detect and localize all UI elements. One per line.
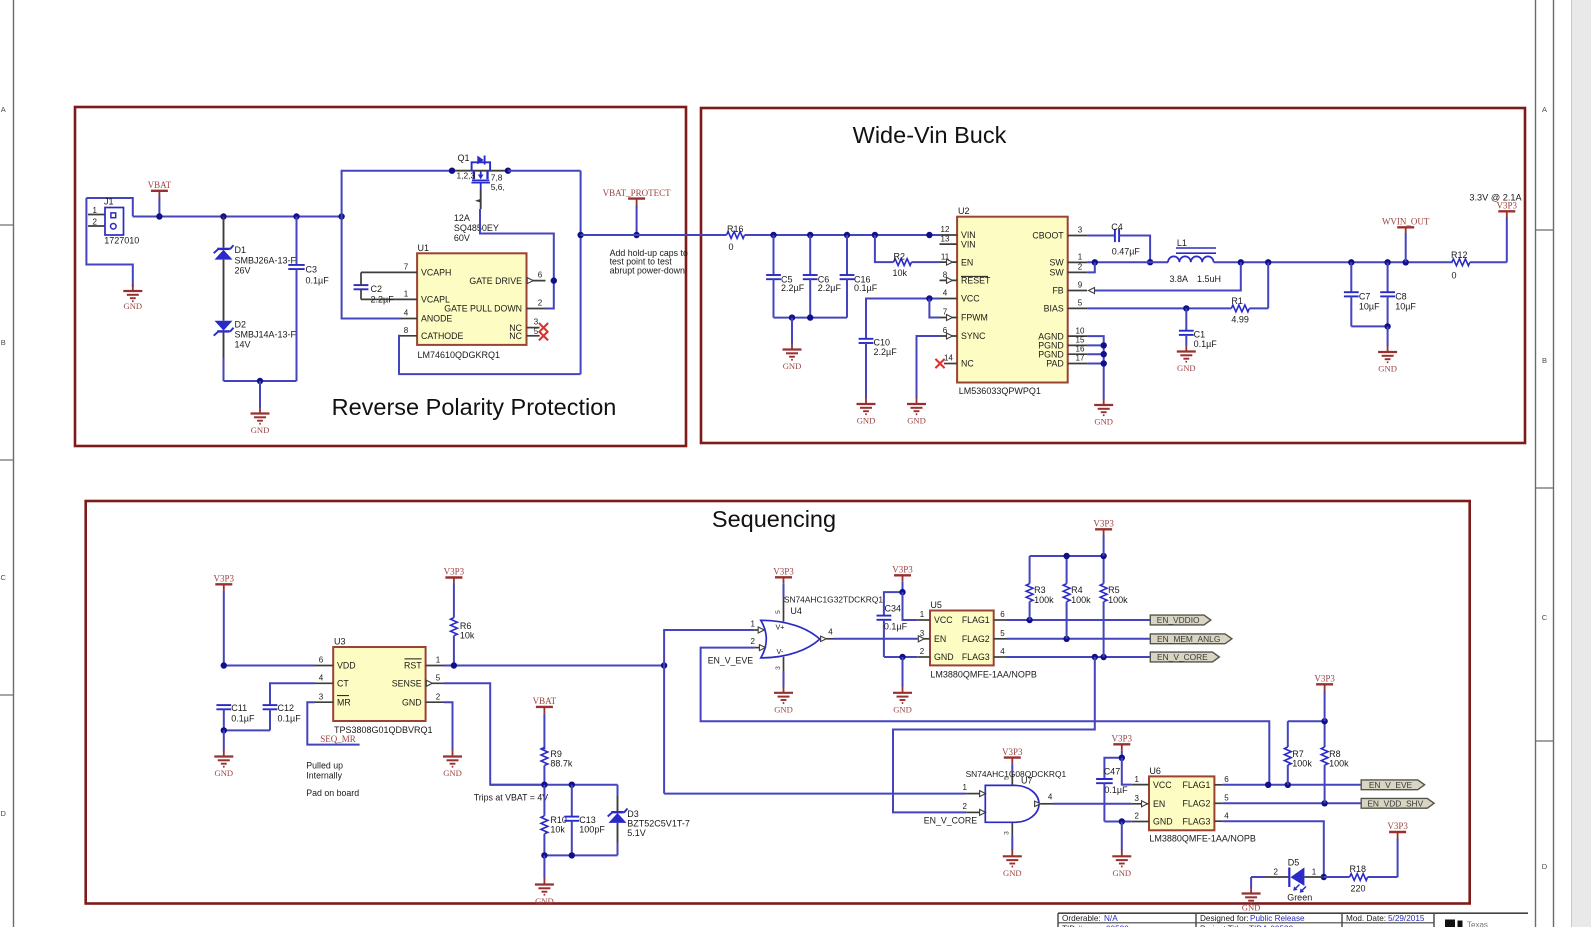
svg-text:WVIN_OUT: WVIN_OUT xyxy=(1382,217,1430,227)
svg-text:1: 1 xyxy=(436,656,441,665)
svg-text:100k: 100k xyxy=(1108,595,1128,605)
svg-text:7,8: 7,8 xyxy=(491,172,503,182)
svg-text:Reverse Polarity Protection: Reverse Polarity Protection xyxy=(332,394,617,420)
svg-text:100k: 100k xyxy=(1329,758,1349,768)
wire FB sense xyxy=(1095,262,1241,290)
svg-text:R9: R9 xyxy=(550,749,562,759)
no-connect X pin14 U2 xyxy=(935,359,944,368)
svg-text:EN_V_CORE: EN_V_CORE xyxy=(924,815,977,825)
port EN_MEM_ANLG xyxy=(1150,634,1232,644)
svg-text:0: 0 xyxy=(1452,271,1457,281)
svg-text:GND: GND xyxy=(1378,364,1397,374)
capacitor C5 2.2uF xyxy=(766,235,805,318)
svg-text:EN_VDD_SHV: EN_VDD_SHV xyxy=(1367,798,1423,808)
svg-text:VBAT: VBAT xyxy=(148,180,172,190)
port EN_VDDIO xyxy=(1150,615,1211,625)
capacitor C11 0.1uF xyxy=(216,703,255,730)
ground under U4 xyxy=(774,671,793,714)
svg-text:0.1µF: 0.1µF xyxy=(231,713,255,723)
svg-text:C3: C3 xyxy=(306,265,318,275)
wire FPWM tie to VCC xyxy=(926,295,939,317)
ground under J1 xyxy=(123,285,142,312)
ground under U5 xyxy=(884,654,917,715)
svg-text:D2: D2 xyxy=(235,320,247,330)
wire U3 RST to gates xyxy=(444,662,667,668)
svg-text:A: A xyxy=(1,105,6,114)
svg-text:Orderable:: Orderable: xyxy=(1062,914,1101,923)
ground under R10 xyxy=(535,878,554,906)
svg-text:VCC: VCC xyxy=(961,294,980,304)
port EN_V_EVE xyxy=(1361,780,1424,790)
svg-text:1.5uH: 1.5uH xyxy=(1197,274,1221,284)
svg-text:8: 8 xyxy=(404,326,409,335)
svg-text:2: 2 xyxy=(751,637,756,646)
transistor Q1 SQ4850EY xyxy=(342,153,512,243)
svg-text:4.99: 4.99 xyxy=(1231,314,1249,324)
svg-text:U4: U4 xyxy=(790,606,802,616)
svg-text:2.2µF: 2.2µF xyxy=(371,294,395,304)
svg-text:GND: GND xyxy=(535,896,554,906)
resistor R5 100k xyxy=(1100,556,1128,657)
ground under D2/C3 xyxy=(251,407,270,435)
svg-text:GND: GND xyxy=(857,416,876,426)
svg-text:2.2µF: 2.2µF xyxy=(874,347,898,357)
svg-text:0.1µF: 0.1µF xyxy=(884,622,908,632)
svg-text:FLAG1: FLAG1 xyxy=(1183,780,1211,790)
resistor R4 100k xyxy=(1063,556,1091,639)
ground under C10 xyxy=(857,398,876,426)
diode D1 SMBJ26A-13-F xyxy=(214,217,297,321)
wire Q1 gate to U1 xyxy=(480,209,557,309)
svg-text:VCAPH: VCAPH xyxy=(421,268,451,278)
svg-text:GND: GND xyxy=(1003,868,1022,878)
svg-text:1: 1 xyxy=(1312,867,1317,876)
wire R9/R10/C13/D3 top rail xyxy=(490,782,617,788)
svg-text:Pad on board: Pad on board xyxy=(306,788,359,798)
svg-text:D3: D3 xyxy=(627,809,639,819)
svg-text:15: 15 xyxy=(1076,336,1085,345)
svg-text:V3P3: V3P3 xyxy=(214,574,235,584)
svg-text:12: 12 xyxy=(941,225,950,234)
svg-text:V3P3: V3P3 xyxy=(1093,519,1114,529)
svg-text:SMBJ14A-13-F: SMBJ14A-13-F xyxy=(235,330,297,340)
wire R7/R8 top rail xyxy=(1288,718,1328,724)
diode D2 SMBJ14A-13-F xyxy=(214,320,297,382)
svg-text:MR: MR xyxy=(337,697,351,707)
svg-text:VBAT_PROTECT: VBAT_PROTECT xyxy=(603,188,672,198)
note hold-up caps xyxy=(610,248,688,276)
svg-text:C34: C34 xyxy=(885,604,902,614)
svg-text:2.2µF: 2.2µF xyxy=(818,283,842,293)
svg-text:0.1µF: 0.1µF xyxy=(1194,339,1218,349)
svg-text:4: 4 xyxy=(828,627,833,636)
ground under C11 xyxy=(214,750,233,778)
svg-text:1: 1 xyxy=(404,289,409,298)
power symbol V3P3 output xyxy=(1497,201,1518,263)
wire U4 output to U5 EN xyxy=(834,638,917,640)
svg-text:C11: C11 xyxy=(231,703,247,713)
svg-text:C8: C8 xyxy=(1395,292,1407,302)
ground under U6 xyxy=(1104,818,1131,878)
svg-text:26V: 26V xyxy=(235,266,251,276)
svg-text:VCC: VCC xyxy=(934,615,953,625)
connector J1 1727010 xyxy=(86,197,139,287)
svg-text:4: 4 xyxy=(404,309,409,318)
svg-text:C: C xyxy=(1542,613,1548,622)
svg-text:B: B xyxy=(1,338,6,347)
wire R10/C13/D3 bottom rail xyxy=(541,852,617,878)
svg-text:220: 220 xyxy=(1351,884,1366,894)
svg-text:14V: 14V xyxy=(235,340,251,350)
resistor R8 100k xyxy=(1321,721,1349,803)
op-amp U7 SN74AHC1G08QDCKRQ1 AND gate xyxy=(963,769,1067,836)
svg-text:GND: GND xyxy=(893,704,912,714)
svg-text:4: 4 xyxy=(1048,792,1053,801)
op-amp U6 LM3880QMFE-1AA/NOPB xyxy=(1132,766,1256,844)
svg-text:0: 0 xyxy=(729,242,734,252)
diode D3 BZT52C5V1T-7 xyxy=(608,785,690,856)
ground under C1 xyxy=(1177,345,1196,373)
wire EN_V_EVE feedback xyxy=(701,648,1270,785)
resistor R12 0 xyxy=(1451,250,1507,280)
wire RST net to U7 input1 xyxy=(664,793,966,795)
port EN_V_CORE xyxy=(1150,652,1219,662)
capacitor C10 2.2uF xyxy=(859,299,940,399)
wire Q1 source to VBAT_PROTECT node xyxy=(508,171,581,374)
wire U1 anode to VBAT rail xyxy=(342,217,401,319)
svg-text:2: 2 xyxy=(538,298,543,307)
svg-text:10k: 10k xyxy=(460,631,475,641)
ground under C7/C8 xyxy=(1378,346,1397,374)
svg-text:2: 2 xyxy=(963,802,968,811)
svg-text:V3P3: V3P3 xyxy=(1002,747,1023,757)
svg-text:FLAG2: FLAG2 xyxy=(1183,799,1211,809)
svg-text:Texas: Texas xyxy=(1467,921,1488,928)
svg-text:17: 17 xyxy=(1076,354,1085,363)
wire C11/C12 bottom rail xyxy=(221,727,270,750)
svg-text:3: 3 xyxy=(1078,226,1083,235)
svg-text:6: 6 xyxy=(1224,775,1229,784)
op-amp U5 LM3880QMFE-1AA/NOPB xyxy=(917,600,1037,680)
power symbol V3P3 at U4 xyxy=(773,567,794,598)
svg-text:SYNC: SYNC xyxy=(961,331,986,341)
capacitor C1 0.1uF xyxy=(1179,308,1217,349)
svg-text:Green: Green xyxy=(1287,893,1312,903)
svg-text:V3P3: V3P3 xyxy=(1387,821,1408,831)
ground under U3 xyxy=(443,750,462,778)
svg-text:3.3V @ 2.1A: 3.3V @ 2.1A xyxy=(1469,193,1522,203)
svg-text:D1: D1 xyxy=(235,245,247,255)
svg-text:RESET: RESET xyxy=(961,276,991,286)
sheet zone border left xyxy=(0,0,14,927)
svg-text:0.1µF: 0.1µF xyxy=(306,276,330,286)
svg-text:CT: CT xyxy=(337,679,349,689)
svg-text:5.1V: 5.1V xyxy=(627,828,646,838)
svg-text:GND: GND xyxy=(1094,417,1113,427)
wire FLAG3 to D5 xyxy=(1223,821,1327,880)
svg-text:5: 5 xyxy=(1000,629,1005,638)
svg-text:2: 2 xyxy=(1134,812,1139,821)
wire FLAG2 to EN_MEM_ANLG xyxy=(1007,636,1151,642)
svg-text:10k: 10k xyxy=(550,825,565,835)
block frame: Reverse Polarity Protection xyxy=(75,107,686,446)
svg-text:5: 5 xyxy=(534,327,539,336)
resistor R3 100k xyxy=(1026,556,1054,620)
svg-text:100k: 100k xyxy=(1034,595,1054,605)
svg-text:CATHODE: CATHODE xyxy=(421,331,463,341)
svg-text:NC: NC xyxy=(509,331,522,341)
svg-text:RST: RST xyxy=(404,661,422,671)
svg-text:C10: C10 xyxy=(874,337,891,347)
TI logo xyxy=(1445,920,1488,930)
capacitor C7 10uF xyxy=(1344,262,1380,326)
svg-text:2: 2 xyxy=(436,692,441,701)
svg-text:GND: GND xyxy=(1177,363,1196,373)
svg-text:SMBJ26A-13-F: SMBJ26A-13-F xyxy=(235,256,297,266)
svg-text:VCC: VCC xyxy=(1153,780,1172,790)
capacitor C3 0.1uF xyxy=(288,217,329,382)
svg-text:PAD: PAD xyxy=(1046,359,1063,369)
svg-text:SEQ_MR: SEQ_MR xyxy=(320,734,356,744)
svg-text:R1: R1 xyxy=(1231,296,1243,306)
svg-text:2: 2 xyxy=(920,647,925,656)
svg-text:3: 3 xyxy=(534,318,539,327)
note 3.3V at 2.1A xyxy=(1469,193,1522,203)
svg-text:A: A xyxy=(1542,105,1547,114)
svg-text:5: 5 xyxy=(1224,794,1229,803)
wire VBAT_PROTECT to buck xyxy=(581,234,727,236)
svg-text:100k: 100k xyxy=(1071,595,1091,605)
svg-text:SN74AHC1G08QDCKRQ1: SN74AHC1G08QDCKRQ1 xyxy=(966,769,1067,779)
note trips at VBAT xyxy=(474,793,549,803)
svg-text:CBOOT: CBOOT xyxy=(1032,231,1064,241)
power symbol V3P3 at R18 xyxy=(1387,821,1408,877)
svg-text:6: 6 xyxy=(319,656,324,665)
svg-text:10: 10 xyxy=(1076,326,1085,335)
wire EN_V_CORE to U7 xyxy=(893,657,1095,812)
svg-text:D: D xyxy=(0,809,6,818)
svg-text:U7: U7 xyxy=(1021,775,1033,785)
svg-text:EN_V_CORE: EN_V_CORE xyxy=(1157,652,1208,662)
svg-text:V3P3: V3P3 xyxy=(1314,674,1335,684)
svg-text:C47: C47 xyxy=(1104,767,1121,777)
power symbol V3P3 at R8 xyxy=(1314,674,1335,722)
svg-text:SENSE: SENSE xyxy=(392,679,422,689)
svg-text:Public Release: Public Release xyxy=(1250,914,1305,923)
node VBAT junctions xyxy=(156,213,345,219)
wire R3/R4/R5 top rail xyxy=(1030,553,1107,559)
svg-text:EN: EN xyxy=(961,257,973,267)
svg-text:60V: 60V xyxy=(454,233,470,243)
power symbol VBAT_PROTECT xyxy=(603,188,672,238)
wire C7/C8 bottom rail xyxy=(1351,323,1391,346)
resistor R6 10k xyxy=(444,567,475,666)
power symbol V3P3 at U3 xyxy=(214,574,235,666)
svg-text:2: 2 xyxy=(1078,263,1083,272)
svg-text:2.2µF: 2.2µF xyxy=(781,283,805,293)
wire SYNC to ground xyxy=(917,336,940,398)
svg-text:Designed for:: Designed for: xyxy=(1200,914,1249,923)
resistor R10 10k xyxy=(541,785,567,856)
svg-text:EN: EN xyxy=(1153,799,1165,809)
svg-text:L1: L1 xyxy=(1177,238,1187,248)
svg-text:V+: V+ xyxy=(776,623,785,632)
svg-text:0.1µF: 0.1µF xyxy=(278,713,302,723)
svg-text:abrupt power-down: abrupt power-down xyxy=(610,266,685,276)
wire D1-D2/C3 bottom rail xyxy=(224,378,297,408)
svg-text:GND: GND xyxy=(214,768,233,778)
wire FLAG1 to EN_V_EVE xyxy=(1223,782,1362,788)
svg-text:J1: J1 xyxy=(104,197,114,207)
svg-text:EN_VDDIO: EN_VDDIO xyxy=(1157,615,1200,625)
svg-text:U2: U2 xyxy=(958,206,970,216)
sheet margin grey strip xyxy=(1572,0,1591,927)
ground under U2 xyxy=(1094,399,1113,427)
svg-text:1: 1 xyxy=(963,783,968,792)
wire U3 VDD xyxy=(221,662,315,668)
svg-text:GND: GND xyxy=(1242,903,1261,913)
no-connect X pin3 U1 xyxy=(539,323,548,332)
svg-text:4: 4 xyxy=(943,289,948,298)
svg-text:GND: GND xyxy=(1112,868,1131,878)
svg-text:FB: FB xyxy=(1052,286,1063,296)
svg-text:6: 6 xyxy=(538,270,543,279)
svg-text:1: 1 xyxy=(920,610,925,619)
svg-text:7: 7 xyxy=(404,262,409,271)
svg-text:10µF: 10µF xyxy=(1395,301,1416,311)
svg-text:V-: V- xyxy=(777,647,784,656)
svg-text:16: 16 xyxy=(1076,344,1085,353)
wire buck VIN rail xyxy=(745,232,940,238)
svg-text:GND: GND xyxy=(783,361,802,371)
svg-text:EN_V_EVE: EN_V_EVE xyxy=(708,655,754,665)
svg-text:LM3880QMFE-1AA/NOPB: LM3880QMFE-1AA/NOPB xyxy=(930,670,1037,680)
wire input caps bottom rail xyxy=(774,314,848,343)
ground under D5 xyxy=(1242,887,1261,913)
power symbol V3P3 at U5 xyxy=(892,565,917,621)
svg-text:1: 1 xyxy=(1078,253,1083,262)
svg-text:R16: R16 xyxy=(727,224,744,234)
svg-text:V3P3: V3P3 xyxy=(773,567,794,577)
svg-text:C1: C1 xyxy=(1194,330,1206,340)
svg-text:Sequencing: Sequencing xyxy=(712,506,836,532)
svg-text:R18: R18 xyxy=(1350,864,1367,874)
svg-text:3: 3 xyxy=(319,692,324,701)
svg-text:R6: R6 xyxy=(460,621,472,631)
svg-text:SN74AHC1G32TDCKRQ1: SN74AHC1G32TDCKRQ1 xyxy=(784,594,883,604)
svg-text:R5: R5 xyxy=(1108,585,1120,595)
svg-text:U3: U3 xyxy=(334,637,346,647)
wire FLAG1 to EN_VDDIO xyxy=(1007,617,1151,623)
resistor R2 10k xyxy=(875,235,940,278)
svg-text:EN_V_EVE: EN_V_EVE xyxy=(1369,780,1413,790)
svg-text:GND: GND xyxy=(123,301,142,311)
power symbol VBAT at R9 xyxy=(533,696,557,749)
svg-text:R2: R2 xyxy=(894,251,906,261)
resistor R7 100k xyxy=(1284,721,1312,785)
svg-text:100k: 100k xyxy=(1292,758,1312,768)
ground under SYNC xyxy=(907,398,926,426)
svg-text:0.1µF: 0.1µF xyxy=(1104,785,1128,795)
svg-text:Trips at VBAT = 4V: Trips at VBAT = 4V xyxy=(474,793,549,803)
wire U1 cathode to VBAT_PROTECT xyxy=(399,336,581,374)
svg-text:3: 3 xyxy=(775,666,782,670)
svg-text:Q1: Q1 xyxy=(458,153,470,163)
svg-text:Pulled up: Pulled up xyxy=(306,761,343,771)
wire AGND/PGND chain xyxy=(1087,336,1107,399)
svg-text:V3P3: V3P3 xyxy=(892,565,913,575)
wire FLAG3 to EN_V_CORE xyxy=(1007,654,1151,660)
op-amp U4 SN74AHC1G32TDCKRQ1 OR gate xyxy=(751,594,884,671)
wire SW rail xyxy=(1087,259,1168,272)
resistor R18 220 xyxy=(1324,864,1398,894)
svg-text:R7: R7 xyxy=(1292,749,1304,759)
wire buck output rail xyxy=(1214,259,1453,265)
svg-text:GND: GND xyxy=(251,425,270,435)
svg-text:NC: NC xyxy=(961,359,974,369)
svg-text:1: 1 xyxy=(93,206,98,215)
svg-text:2: 2 xyxy=(1273,867,1278,876)
svg-text:D5: D5 xyxy=(1288,858,1300,868)
resistor R1 4.99 xyxy=(1231,262,1268,324)
svg-text:U5: U5 xyxy=(930,600,942,610)
svg-text:C2: C2 xyxy=(371,284,383,294)
svg-text:V3P3: V3P3 xyxy=(444,567,465,577)
diode D5 Green LED xyxy=(1251,858,1324,903)
svg-text:C13: C13 xyxy=(579,815,596,825)
svg-text:1,2,3: 1,2,3 xyxy=(457,171,476,181)
op-amp U2 LM536033QPWPQ1 xyxy=(940,206,1095,396)
resistor R9 88.7k xyxy=(541,747,573,784)
power symbol V3P3 at U7 xyxy=(1002,747,1023,772)
svg-text:10k: 10k xyxy=(893,268,908,278)
port EN_VDD_SHV xyxy=(1361,798,1434,808)
svg-text:GND: GND xyxy=(907,416,926,426)
power symbol WVIN_OUT xyxy=(1382,217,1430,263)
svg-text:3: 3 xyxy=(1134,794,1139,803)
svg-text:VIN: VIN xyxy=(961,239,976,249)
op-amp U3 TPS3808G01QDBVRQ1 xyxy=(315,637,445,736)
capacitor C47 0.1uF xyxy=(1096,758,1128,822)
wire U7 output to U6 EN xyxy=(1053,803,1132,805)
svg-text:Internally: Internally xyxy=(306,770,342,780)
block frame: Sequencing xyxy=(86,501,1470,904)
svg-text:10µF: 10µF xyxy=(1359,301,1380,311)
svg-text:FLAG3: FLAG3 xyxy=(962,652,990,662)
svg-text:C: C xyxy=(0,573,6,582)
note pulled up internally xyxy=(306,761,359,798)
capacitor C12 0.1uF xyxy=(263,683,315,730)
svg-text:GND: GND xyxy=(1153,817,1173,827)
svg-text:C7: C7 xyxy=(1359,292,1371,302)
svg-text:C12: C12 xyxy=(278,703,295,713)
svg-text:Mod. Date:: Mod. Date: xyxy=(1346,914,1386,923)
svg-text:B: B xyxy=(1542,356,1547,365)
svg-text:0.47µF: 0.47µF xyxy=(1112,247,1141,257)
svg-text:4: 4 xyxy=(1224,811,1229,820)
svg-text:VDD: VDD xyxy=(337,661,356,671)
svg-text:R8: R8 xyxy=(1329,749,1341,759)
wire U3 SENSE xyxy=(444,683,544,784)
svg-text:LM536033QPWPQ1: LM536033QPWPQ1 xyxy=(959,386,1041,396)
svg-text:FLAG2: FLAG2 xyxy=(962,634,990,644)
svg-text:2: 2 xyxy=(93,217,98,226)
svg-text:12A: 12A xyxy=(454,213,470,223)
svg-text:GATE DRIVE: GATE DRIVE xyxy=(469,276,522,286)
svg-text:9: 9 xyxy=(1078,281,1083,290)
svg-text:1727010: 1727010 xyxy=(104,236,139,246)
svg-text:5: 5 xyxy=(1078,299,1083,308)
